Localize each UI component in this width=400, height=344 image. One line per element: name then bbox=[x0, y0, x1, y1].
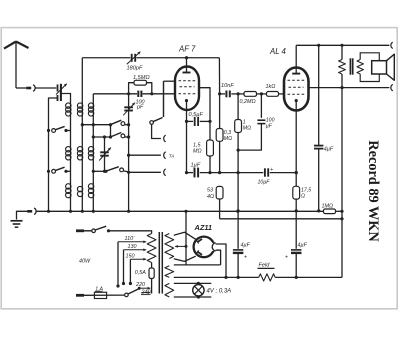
coil L1b bbox=[70, 145, 72, 162]
pilot lamp bbox=[193, 285, 204, 296]
svg-text:pF: pF bbox=[136, 105, 144, 111]
speaker terminal top bbox=[391, 42, 393, 48]
coil L1c bbox=[70, 182, 72, 200]
capacitor 100uF bbox=[260, 94, 262, 118]
capacitor 100pF bbox=[137, 91, 139, 97]
tube AZ11 bbox=[194, 237, 215, 258]
wire lamp top bbox=[174, 282, 212, 284]
wire screen feed bbox=[218, 58, 220, 94]
capacitor 1uF bbox=[194, 168, 196, 178]
AZ11 anode plates bbox=[197, 239, 202, 243]
svg-text:220: 220 bbox=[135, 282, 145, 288]
tube AF7 bbox=[175, 67, 199, 111]
svg-text:53: 53 bbox=[207, 188, 213, 194]
mains switch bbox=[76, 229, 84, 232]
svg-text:4µF: 4µF bbox=[324, 147, 334, 153]
svg-text:MΩ: MΩ bbox=[243, 126, 251, 132]
transformer T-power primary bbox=[150, 231, 151, 234]
band switch S1 bbox=[112, 120, 122, 124]
wire anode rail bbox=[296, 44, 389, 46]
wire L2 column bbox=[81, 58, 83, 102]
transformer T-power core bbox=[158, 232, 160, 294]
svg-text:+: + bbox=[270, 167, 273, 173]
svg-text:Ω: Ω bbox=[301, 194, 305, 200]
svg-text:AZ11: AZ11 bbox=[194, 223, 213, 232]
resistor 0.2M bbox=[238, 93, 244, 95]
resistor 1M bleeder bbox=[324, 209, 336, 214]
wire antenna to plug bbox=[16, 87, 26, 89]
svg-text:+: + bbox=[244, 255, 247, 261]
svg-text:Record 89 WKN: Record 89 WKN bbox=[365, 140, 381, 242]
svg-text:MΩ: MΩ bbox=[193, 149, 202, 155]
coil L2c bbox=[81, 185, 83, 199]
capacitor 10uF bbox=[264, 168, 266, 176]
wire plug to C-ant bbox=[35, 87, 56, 89]
capacitor 4uF second bbox=[291, 249, 301, 251]
wire HT vertical bbox=[318, 45, 320, 145]
wire tuner right vertical bbox=[128, 94, 130, 212]
ground plug bbox=[27, 210, 32, 213]
antenna plug bbox=[26, 87, 31, 90]
fuse 1A bbox=[76, 294, 84, 297]
svg-text:4Ω: 4Ω bbox=[207, 194, 214, 200]
coil L2a bbox=[81, 102, 83, 118]
antenna bbox=[4, 42, 16, 49]
svg-text:0,2MΩ: 0,2MΩ bbox=[240, 99, 256, 105]
band switch S4 left bbox=[47, 170, 50, 173]
svg-text:4µF: 4µF bbox=[298, 243, 308, 249]
speaker magnet bbox=[372, 61, 387, 74]
wire HT plus rail bbox=[174, 276, 259, 278]
resistor 1M grid bbox=[237, 94, 239, 120]
wire HT bottom tap to anode bbox=[174, 256, 196, 261]
switch pickup bbox=[163, 81, 165, 117]
resistor 17.5ohm bbox=[293, 186, 300, 199]
AF7 cathode bbox=[185, 99, 188, 102]
wire y218.8 bbox=[220, 218, 342, 220]
svg-text:180pF: 180pF bbox=[127, 66, 143, 72]
primary tap 110 bbox=[118, 241, 146, 243]
primary tap 240 bbox=[141, 292, 150, 294]
wire ground rail bbox=[36, 210, 323, 212]
svg-text:110’: 110’ bbox=[125, 236, 136, 242]
coil L2b bbox=[81, 145, 83, 162]
wire screen rail bbox=[309, 87, 390, 89]
svg-text:AF 7: AF 7 bbox=[178, 45, 196, 54]
svg-text:TA: TA bbox=[169, 153, 175, 158]
svg-text:10µF: 10µF bbox=[258, 180, 271, 186]
resistor 53ohm bbox=[216, 186, 223, 199]
grid trimmer C-grid bbox=[124, 106, 133, 108]
primary tap 130 bbox=[124, 249, 147, 251]
antenna trimmer capacitor bbox=[57, 85, 59, 92]
svg-text:150: 150 bbox=[126, 254, 135, 260]
band switch S2 bbox=[112, 133, 122, 137]
wire to socket3 bbox=[129, 171, 161, 173]
svg-text:130: 130 bbox=[128, 244, 137, 250]
socket terminal 1 bbox=[164, 135, 166, 142]
wire cathode bus bbox=[187, 172, 194, 174]
resistor 1.5M anode bbox=[207, 140, 214, 156]
speaker cone bbox=[387, 54, 395, 80]
svg-text:AL 4: AL 4 bbox=[269, 47, 287, 56]
transformer filament winding AZ bbox=[165, 266, 174, 278]
socket terminal 3 bbox=[164, 169, 166, 176]
capacitor 4uF coupling bbox=[314, 145, 323, 147]
svg-text:µF: µF bbox=[266, 123, 273, 129]
capacitor 4uF first bbox=[233, 249, 243, 251]
AF7 top cap bbox=[186, 58, 188, 72]
transformer filament winding lamp bbox=[165, 283, 174, 297]
resistor 0.3M bbox=[219, 94, 221, 129]
svg-text:1,5MΩ: 1,5MΩ bbox=[133, 75, 150, 81]
wire switch link bbox=[110, 125, 112, 137]
wire top rail bbox=[82, 57, 130, 59]
coil L3b bbox=[92, 145, 94, 162]
antenna coupling capacitor lower plate bbox=[57, 95, 59, 101]
socket terminal TA bbox=[164, 152, 166, 159]
AL4 top cap bbox=[295, 45, 297, 73]
coil L3c bbox=[92, 182, 94, 200]
coil L3a bbox=[92, 102, 94, 118]
resistor 1k bbox=[267, 92, 279, 97]
AL4 grids bbox=[288, 79, 305, 81]
svg-text:1µF: 1µF bbox=[191, 162, 201, 168]
voltage selector switch bbox=[125, 293, 129, 297]
coil L1a bbox=[70, 102, 72, 118]
wire HT center tap bbox=[175, 245, 186, 247]
wire tap row y137 bbox=[93, 136, 110, 138]
wire trimmer to coil L1 bbox=[61, 94, 71, 102]
svg-text:10nF: 10nF bbox=[221, 83, 234, 89]
svg-text:17,5: 17,5 bbox=[301, 188, 311, 194]
tube AL4 bbox=[284, 68, 309, 111]
svg-text:4V ; 0,3A: 4V ; 0,3A bbox=[207, 289, 232, 295]
wire tap row y124.7 bbox=[82, 124, 110, 126]
wire to socket1 bbox=[152, 124, 161, 138]
transformer T-out core bbox=[349, 58, 351, 74]
AF7 grids bbox=[179, 80, 196, 82]
AL4 cathode bbox=[295, 99, 298, 102]
svg-text:MΩ: MΩ bbox=[224, 136, 232, 142]
transformer T-out primary bbox=[341, 45, 343, 59]
wire grid rail bbox=[93, 93, 137, 95]
wire lamp bottom bbox=[174, 296, 212, 298]
svg-text:4µF: 4µF bbox=[241, 243, 251, 249]
svg-text:1kΩ: 1kΩ bbox=[266, 84, 276, 90]
wire lower plate to left rail bbox=[49, 98, 58, 211]
resistor R 1.5M bridge bbox=[129, 83, 134, 94]
speaker terminal bottom bbox=[391, 84, 393, 90]
wire AZ11 cathode out bbox=[216, 244, 226, 277]
fuse 0.5A bbox=[149, 268, 154, 279]
primary tap 150 bbox=[130, 258, 146, 260]
wire AF7 anode bbox=[199, 88, 210, 140]
wire AF7 grid entry bbox=[164, 80, 176, 82]
wire to socket TA bbox=[129, 154, 161, 156]
AZ11 filament loop bbox=[212, 243, 216, 251]
primary tap 220 bbox=[139, 287, 150, 289]
svg-text:+: + bbox=[285, 255, 288, 261]
variable capacitor 180pF bbox=[131, 54, 133, 62]
transformer HT secondary bbox=[165, 234, 174, 259]
wire HT top tap to anode bbox=[174, 232, 197, 240]
wire L3 column bbox=[92, 94, 94, 102]
capacitor 0.5uF bbox=[187, 120, 194, 122]
transformer T-out secondary bbox=[360, 53, 379, 82]
band switch S3 left bbox=[47, 129, 50, 132]
wire L1 column bbox=[70, 118, 72, 146]
band switch S5 right bbox=[92, 170, 95, 173]
svg-text:0,5µF: 0,5µF bbox=[189, 112, 204, 118]
svg-text:0,5A: 0,5A bbox=[135, 270, 146, 276]
capacitor 10nF bbox=[220, 93, 225, 95]
wire AZ11 filament return bbox=[216, 250, 221, 265]
padder trimmer C-pad bbox=[104, 137, 106, 171]
svg-text:1MΩ: 1MΩ bbox=[322, 203, 334, 209]
ground symbol bbox=[17, 211, 29, 219]
svg-text:40W: 40W bbox=[79, 259, 91, 265]
field coil Feld bbox=[259, 274, 276, 281]
